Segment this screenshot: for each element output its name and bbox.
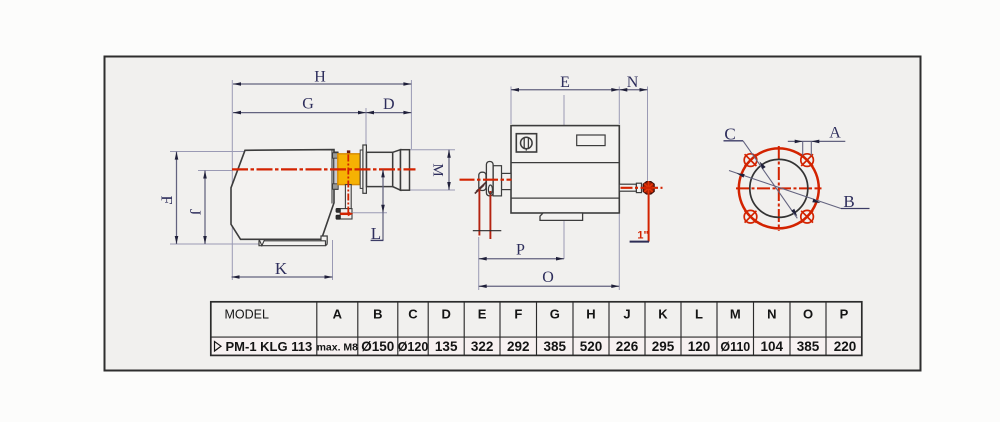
valve stem <box>345 185 351 209</box>
svg-text:B: B <box>843 192 854 211</box>
blast tube end cylinder <box>401 150 410 191</box>
svg-text:520: 520 <box>580 339 603 354</box>
blast tube stub step2 <box>502 173 512 189</box>
svg-text:M: M <box>430 163 446 176</box>
gas pipe stub <box>619 184 636 191</box>
dimension A <box>788 125 846 156</box>
burner body (front view) <box>511 126 619 213</box>
table header text <box>225 307 849 322</box>
rear foot <box>321 236 327 245</box>
svg-text:220: 220 <box>834 339 857 354</box>
extension line E/N <box>618 87 620 125</box>
svg-text:120: 120 <box>688 339 711 354</box>
svg-text:M: M <box>730 307 741 322</box>
svg-text:D: D <box>383 96 395 113</box>
svg-text:D: D <box>442 307 451 322</box>
valve top nub <box>347 150 350 154</box>
svg-text:H: H <box>314 69 326 86</box>
dimension G <box>233 96 366 115</box>
svg-text:F: F <box>158 196 175 205</box>
extension line E left <box>510 87 512 125</box>
svg-text:J: J <box>623 307 630 322</box>
svg-text:385: 385 <box>797 339 820 354</box>
svg-text:A: A <box>829 125 841 142</box>
electrode 1 <box>478 189 480 236</box>
extension line L bottom <box>353 212 387 214</box>
svg-text:292: 292 <box>507 339 530 354</box>
extension line P left <box>478 237 480 290</box>
extension line F top <box>170 151 247 153</box>
bolt hole TR <box>801 154 814 167</box>
leader B <box>729 171 870 212</box>
bracket body <box>340 209 352 219</box>
orange gas valve block <box>338 154 360 185</box>
svg-text:PM-1 KLG 113: PM-1 KLG 113 <box>226 339 313 354</box>
table row divider <box>211 336 862 338</box>
model marker triangle <box>215 342 222 352</box>
bolt hole BL <box>744 210 757 223</box>
svg-text:Ø110: Ø110 <box>720 340 750 354</box>
plate bolt top <box>333 153 339 158</box>
svg-text:295: 295 <box>652 339 675 354</box>
svg-text:104: 104 <box>761 339 784 354</box>
extension line O right <box>618 214 620 290</box>
svg-text:135: 135 <box>435 339 458 354</box>
svg-text:L: L <box>695 307 703 322</box>
body divider upper <box>511 162 619 164</box>
extension line H/D right <box>410 80 412 149</box>
red bracket line <box>340 213 349 216</box>
body divider lower <box>511 197 619 199</box>
bolt circle <box>739 148 819 228</box>
red bracket arrow <box>348 211 353 216</box>
dimension L <box>371 169 385 243</box>
extension line M bottom <box>410 189 455 191</box>
dimension P <box>479 242 564 261</box>
drawing frame <box>105 57 921 371</box>
svg-text:J: J <box>186 209 203 215</box>
extension line N right <box>647 87 649 182</box>
red centerline left view <box>232 168 416 170</box>
svg-text:H: H <box>586 307 595 322</box>
extension line K right <box>332 240 334 280</box>
dimension D <box>366 96 411 115</box>
stub cap <box>479 172 486 190</box>
svg-text:K: K <box>658 307 668 322</box>
svg-text:P: P <box>840 307 849 322</box>
plate bolt bottom <box>333 184 339 189</box>
dimension M <box>430 150 451 190</box>
svg-text:Ø150: Ø150 <box>361 339 394 354</box>
svg-text:L: L <box>371 224 381 243</box>
dimension F <box>158 152 179 244</box>
electrode hook <box>475 183 486 194</box>
red gas drop line <box>648 194 650 242</box>
svg-text:F: F <box>514 307 522 322</box>
dimension J <box>186 171 207 245</box>
bolt hole BR <box>801 210 814 223</box>
dimension K <box>232 259 333 279</box>
sight glass circle <box>521 137 533 149</box>
body right edge inner line <box>331 150 333 203</box>
table outer border <box>211 302 862 356</box>
mounting plate <box>334 152 338 189</box>
leader C <box>724 124 798 218</box>
flange centerline horizontal <box>736 187 822 189</box>
bracket bolt 2 <box>336 215 340 219</box>
extension line F/J bottom <box>170 243 260 245</box>
svg-text:MODEL: MODEL <box>225 308 270 322</box>
body centerline vertical <box>563 95 565 259</box>
svg-text:1": 1" <box>637 230 648 242</box>
dimension O <box>479 269 620 288</box>
dimension N <box>619 74 647 91</box>
sight glass square <box>516 134 536 152</box>
extension line G/D middle <box>365 108 367 146</box>
burner body (left view) <box>231 150 334 240</box>
table data row <box>215 339 857 354</box>
blast tube <box>367 152 393 186</box>
gas nut cross <box>642 181 655 195</box>
table header background <box>211 302 862 337</box>
bolt hole TL <box>744 154 757 167</box>
svg-text:max. M8: max. M8 <box>317 342 359 354</box>
svg-text:B: B <box>373 307 382 322</box>
red gas axis <box>621 187 663 189</box>
base strip <box>259 241 326 246</box>
table data row background <box>211 337 862 355</box>
svg-text:G: G <box>550 307 560 322</box>
flange ring 2 <box>363 145 367 193</box>
svg-text:Ø120: Ø120 <box>398 340 429 354</box>
svg-text:E: E <box>478 307 487 322</box>
extension line M top <box>410 149 455 151</box>
dimension H <box>233 69 411 86</box>
bracket bolt 1 <box>336 208 340 212</box>
electrode 2 <box>489 191 491 239</box>
flange ring 1 <box>360 150 363 188</box>
blast tube stub step1 <box>493 166 501 196</box>
svg-text:E: E <box>560 74 570 91</box>
gas nut black <box>636 183 641 192</box>
surface mark triangle <box>259 240 264 246</box>
sight glass slots <box>524 138 528 151</box>
stub flange disc <box>486 162 493 196</box>
svg-text:C: C <box>408 307 418 322</box>
svg-text:226: 226 <box>616 339 639 354</box>
svg-text:O: O <box>803 307 813 322</box>
label 1 inch underline <box>630 241 649 243</box>
electrode 2 bead <box>488 185 492 194</box>
extension line H/G/K left <box>231 80 233 280</box>
table column lines <box>316 302 318 356</box>
label plate <box>577 135 605 146</box>
tube hole circle <box>750 159 808 217</box>
svg-text:322: 322 <box>471 339 494 354</box>
red centerline front view <box>460 179 512 181</box>
electrode tick line <box>473 230 502 232</box>
svg-text:A: A <box>333 307 343 322</box>
gas nut red <box>643 182 654 194</box>
svg-text:N: N <box>767 307 776 322</box>
extension line J top <box>198 170 232 172</box>
svg-text:K: K <box>275 259 288 278</box>
red valve axis vertical <box>347 155 349 215</box>
svg-text:N: N <box>627 74 639 91</box>
svg-text:O: O <box>542 269 554 286</box>
blast tube cone <box>393 150 401 191</box>
body foot <box>540 213 583 220</box>
svg-text:385: 385 <box>544 339 567 354</box>
svg-text:P: P <box>516 242 525 259</box>
dimension E <box>511 74 619 91</box>
svg-text:C: C <box>724 124 735 143</box>
svg-text:G: G <box>302 96 314 113</box>
flange centerline vertical <box>778 146 780 231</box>
